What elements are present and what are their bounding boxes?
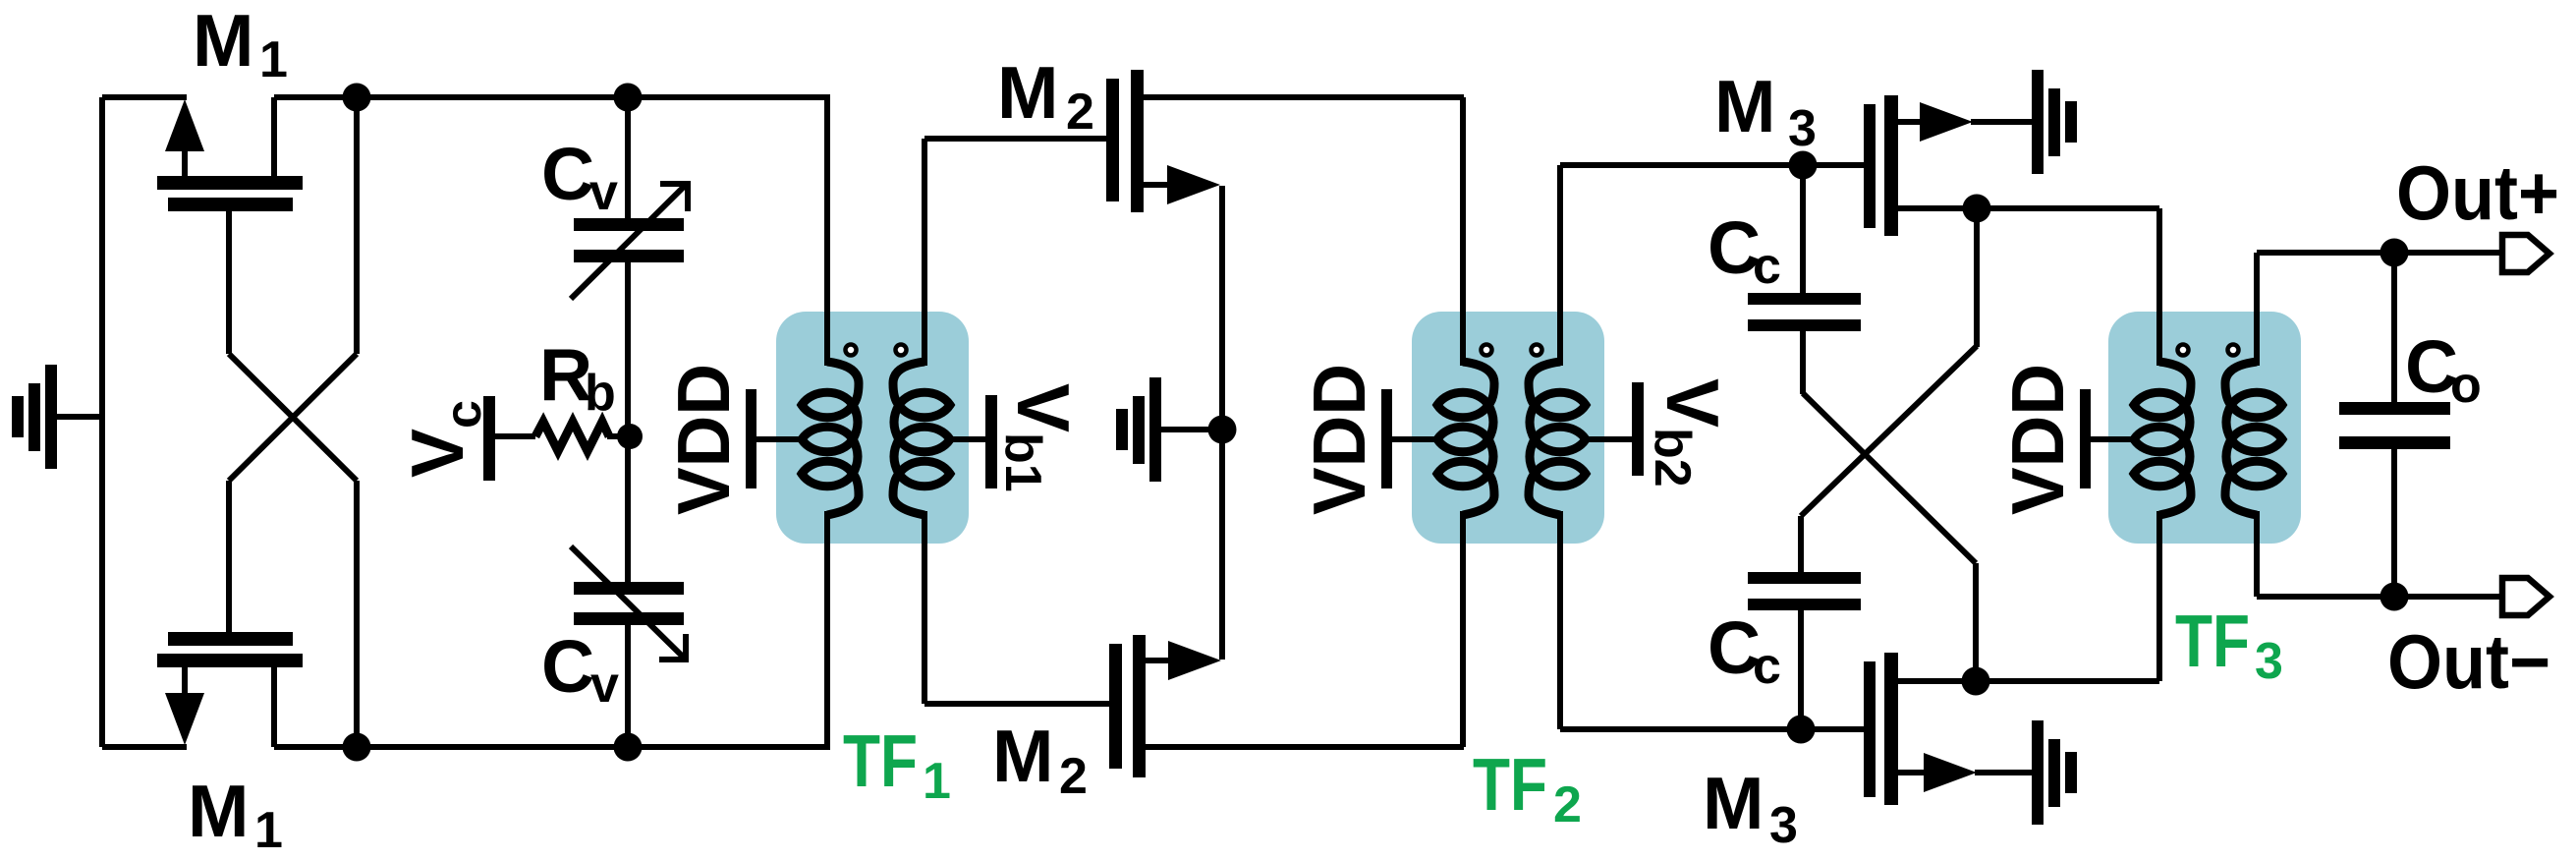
wire VDD to TF1 primary [756, 436, 804, 442]
wire cross-over diagonal from top M3 source node [1974, 208, 1980, 347]
capacitor Co plates [2339, 402, 2450, 415]
transistor M3 (bottom) source arrow [1898, 770, 1928, 775]
wire varactor branch bottom [625, 624, 631, 747]
svg-text:v: v [590, 657, 619, 714]
svg-text:1: 1 [923, 753, 951, 810]
junction dot M3 (bottom) drain / cross-over [1962, 667, 1990, 696]
transistor M2 (top) source arrow [1144, 182, 1171, 188]
wire TF3 secondary top to Out+ [2254, 253, 2260, 366]
wire cross-coupling: gate lead of bottom M1 [226, 481, 232, 635]
transistor M3 (top) channel bar [1884, 95, 1898, 236]
svg-text:c: c [1753, 238, 1781, 295]
junction dot Out- / Co [2380, 583, 2409, 611]
VDD supply bar (TF1) [746, 389, 756, 488]
svg-text:2: 2 [1066, 84, 1094, 141]
wire TF1 secondary top to M2 gate [922, 139, 927, 366]
transistor M1 (top) gate bar [168, 198, 293, 211]
ground (left, tail of cross-coupled pair M1) [57, 414, 102, 420]
svg-text:M: M [1703, 762, 1764, 844]
transformer TF3 secondary winding [2225, 362, 2257, 405]
transformer TF3 primary winding [2159, 362, 2191, 405]
wire cross-over diagonal from top Cc [1803, 393, 1976, 563]
svg-text:M: M [1714, 65, 1775, 147]
junction dot M3 gate / Cc (top) [1789, 151, 1818, 180]
svg-text:TF: TF [843, 719, 918, 802]
transformer TF1 polarity dot primary [846, 345, 857, 356]
transformer TF1 secondary winding [893, 362, 924, 405]
terminal Out+ connector [2502, 235, 2549, 272]
svg-text:VDD: VDD [1298, 364, 1380, 515]
transistor M1 (bottom) channel bar [157, 654, 303, 667]
svg-text:M: M [997, 51, 1058, 134]
junction dot top rail / varactor branch [614, 84, 643, 112]
svg-text:Out+: Out+ [2396, 149, 2559, 236]
transistor M3 (bottom) drain wire [1898, 678, 2159, 684]
wire TF2 secondary to Vb2 bar [1584, 436, 1633, 442]
transistor M3 (top) source arrow [1898, 119, 1924, 125]
svg-text:VDD: VDD [1996, 364, 2079, 515]
transistor M1 (bottom) source arrow [165, 693, 204, 745]
wire TF2 secondary top to M3 gate [1557, 165, 1563, 366]
capacitor Cc (top) plates [1748, 293, 1861, 305]
transformer TF3 polarity dot primary [2178, 345, 2189, 356]
wire cross-coupling: node B vertical (to bottom rail) [354, 481, 360, 747]
svg-text:Vc: Vc [396, 400, 492, 478]
wire TF3 primary bottom lead [2156, 511, 2162, 681]
svg-text:Vb2: Vb2 [1644, 378, 1734, 488]
wire cross-coupling: gate lead of top M1 [226, 209, 232, 354]
transformer TF1 highlight box [776, 312, 969, 544]
svg-text:M: M [188, 770, 249, 852]
wire TF1 primary top lead [824, 97, 830, 366]
svg-text:c: c [1753, 638, 1781, 695]
transformer TF2 secondary winding [1529, 362, 1560, 405]
junction dot bottom rail / M1 drain [343, 733, 371, 762]
transistor M1 (top) drain wire [271, 97, 277, 179]
transistor M2 (bottom) source arrow [1146, 658, 1171, 663]
svg-text:TF: TF [1473, 743, 1547, 826]
svg-text:o: o [2450, 357, 2482, 414]
svg-text:C: C [541, 625, 594, 708]
wire Rb to varactor midpoint [607, 433, 630, 439]
wire top-left to M1 source [102, 94, 187, 100]
wire M2 sources vertical (common node) [1219, 186, 1225, 660]
VDD supply bar (TF2) [1381, 389, 1392, 488]
transformer TF1 primary winding [827, 362, 859, 405]
junction dot M2 source / ground [1208, 416, 1237, 444]
svg-text:M: M [992, 715, 1053, 797]
transformer TF2 highlight box [1412, 312, 1604, 544]
transistor M2 (bottom) drain wire to TF2 [1146, 744, 1464, 750]
svg-text:VDD: VDD [662, 364, 745, 515]
wire VDD to TF3 primary [2091, 436, 2136, 442]
transistor M2 (bottom) gate bar [1109, 644, 1122, 769]
wire varactor branch top [625, 97, 631, 219]
wire TF1 secondary to Vb1 bar [948, 436, 986, 442]
transistor M1 (top) source arrow [165, 99, 204, 151]
transistor M2 (top) drain wire to TF2 [1144, 94, 1464, 100]
transformer TF2 primary winding [1463, 362, 1494, 405]
svg-text:2: 2 [1553, 776, 1582, 833]
bias Vb2 terminal bar [1632, 382, 1644, 476]
transistor M3 (bottom) gate bar [1864, 661, 1876, 797]
varactor Cv (top) plates [574, 218, 684, 231]
transistor M3 (top) gate bar [1864, 104, 1876, 228]
ground (bottom right, M3 source) [1975, 770, 2032, 775]
transistor M3 (bottom) source to ground wire [1975, 770, 2033, 775]
svg-text:3: 3 [2255, 633, 2283, 690]
wire Cc (bottom) to M3 gate (bottom) [1798, 610, 1804, 729]
transistor M3 (top) source to ground wire [1971, 119, 2033, 125]
transistor M2 (top) channel bar [1131, 70, 1144, 212]
varactor Cv (top) arrow [571, 184, 687, 299]
junction dot M3 (top) drain / cross-over [1963, 195, 1991, 223]
capacitor Co bottom lead [2391, 449, 2397, 597]
transistor M2 (top) gate bar [1106, 79, 1119, 201]
wire left vertical bus [99, 97, 105, 747]
ground (middle, between M2 sources) [1161, 427, 1222, 432]
wire TF3 secondary bottom to Out- [2254, 511, 2260, 597]
transformer TF3 polarity dot secondary [2228, 345, 2239, 356]
varactor Cv (bottom) arrow [571, 546, 685, 659]
wire TF1 primary bottom lead [824, 511, 830, 747]
terminal Out- connector [2502, 578, 2549, 615]
transistor M3 (top) drain wire [1898, 205, 2159, 211]
transistor M2 (bottom) channel bar [1133, 635, 1146, 777]
svg-text:3: 3 [1769, 797, 1798, 854]
VDD supply bar (TF3) [2080, 389, 2091, 488]
svg-text:b: b [585, 365, 616, 422]
svg-text:3: 3 [1788, 100, 1817, 157]
junction dot varactor midpoint (node Vtune) [617, 424, 643, 449]
wire bottom rail (left oscillator section) [274, 744, 830, 750]
wire TF2 secondary bottom to M3 gate [1557, 511, 1563, 729]
svg-text:TF: TF [2175, 600, 2250, 682]
svg-text:Out−: Out− [2387, 618, 2550, 705]
wire TF2 primary top lead [1460, 97, 1466, 366]
capacitor Co top lead [2391, 253, 2397, 403]
transformer TF2 polarity dot primary [1482, 345, 1492, 356]
wire bottom-left to M1 source [102, 744, 187, 750]
transistor M1 (bottom) gate bar [168, 632, 293, 646]
svg-text:2: 2 [1059, 748, 1088, 805]
bias Vb1 terminal bar [985, 395, 997, 488]
resistor Rb [535, 422, 609, 451]
transistor M1 (top) channel bar [157, 176, 303, 190]
transformer TF2 polarity dot secondary [1532, 345, 1542, 356]
capacitor Cc (bottom) plates [1748, 572, 1861, 584]
junction dot bottom rail / varactor branch [614, 733, 643, 762]
wire Cc (top) to cross-over [1800, 331, 1806, 394]
svg-text:v: v [589, 164, 618, 221]
transistor M3 (bottom) channel bar [1884, 653, 1898, 805]
ground (top right, M3 source) [1971, 119, 2032, 125]
wire varactor branch middle [625, 261, 631, 583]
junction dot top rail / M1 drain [343, 84, 371, 112]
voltage source Vc terminal bar [483, 396, 495, 481]
svg-text:Vb1: Vb1 [994, 383, 1085, 492]
wire Vc to resistor Rb [495, 433, 535, 439]
svg-text:C: C [541, 133, 594, 215]
wire cross-coupling diagonal B [229, 354, 357, 481]
varactor Cv (bottom) plates [574, 582, 684, 595]
wire TF2 primary bottom lead [1460, 511, 1466, 747]
wire cross-coupling diagonal A [229, 354, 357, 481]
wire TF1 secondary bottom to M2 gate [922, 511, 927, 704]
svg-text:1: 1 [254, 802, 283, 859]
svg-text:M: M [193, 0, 253, 82]
transistor M1 (bottom) drain wire [271, 665, 277, 747]
junction dot Out+ / Co [2380, 239, 2409, 267]
svg-text:1: 1 [259, 31, 288, 88]
wire top rail (left oscillator section) [274, 94, 830, 100]
junction dot M3 gate / Cc (bottom) [1787, 716, 1816, 744]
transformer TF3 highlight box [2108, 312, 2301, 544]
wire M3 gate to Cc (top) [1800, 165, 1806, 294]
wire VDD to TF2 primary [1392, 436, 1439, 442]
wire cross-coupling: node A vertical (drain top to X) [354, 97, 360, 354]
transformer TF1 polarity dot secondary [896, 345, 907, 356]
wire TF3 primary top lead [2156, 208, 2162, 366]
